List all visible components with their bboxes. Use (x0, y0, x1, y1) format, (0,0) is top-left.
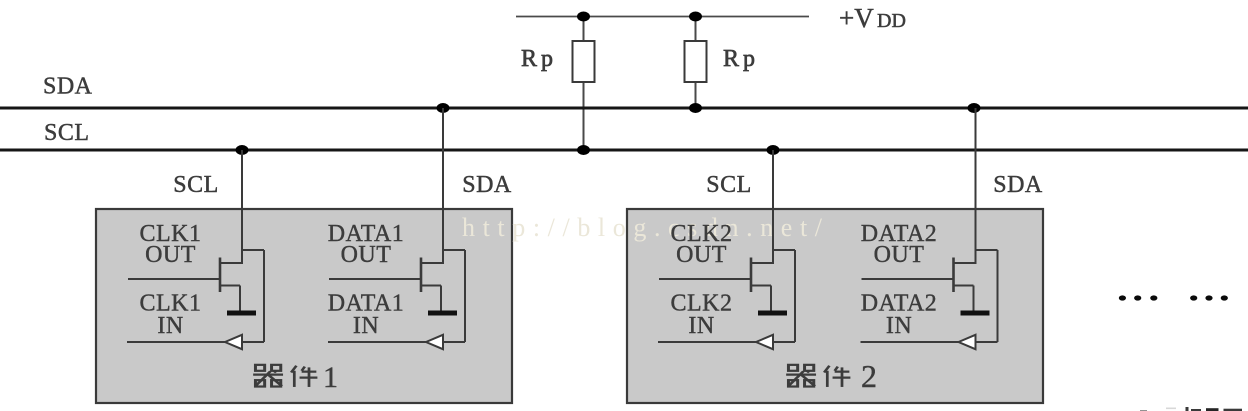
svg-text:SDA: SDA (993, 172, 1043, 198)
svg-text:Rp: Rp (723, 46, 759, 72)
svg-text:SCL: SCL (44, 120, 90, 146)
svg-text:2: 2 (861, 358, 877, 394)
svg-text:IN: IN (886, 313, 912, 339)
svg-text:+V: +V (839, 3, 874, 33)
svg-text:http://blog.csdn.net/: http://blog.csdn.net/ (462, 213, 830, 242)
svg-text:SDA: SDA (43, 74, 93, 100)
svg-text:IN: IN (157, 313, 183, 339)
svg-text:1: 1 (323, 361, 338, 394)
svg-text:OUT: OUT (145, 242, 196, 268)
svg-text:OUT: OUT (676, 242, 727, 268)
svg-text:DD: DD (877, 10, 906, 32)
svg-text:OUT: OUT (874, 242, 925, 268)
svg-text:OUT: OUT (341, 242, 392, 268)
svg-text:Rp: Rp (521, 46, 557, 72)
svg-text:IN: IN (353, 313, 379, 339)
svg-text:SCL: SCL (173, 172, 219, 198)
svg-text:SDA: SDA (462, 172, 512, 198)
svg-text:IN: IN (688, 313, 714, 339)
svg-text:SCL: SCL (706, 172, 752, 198)
